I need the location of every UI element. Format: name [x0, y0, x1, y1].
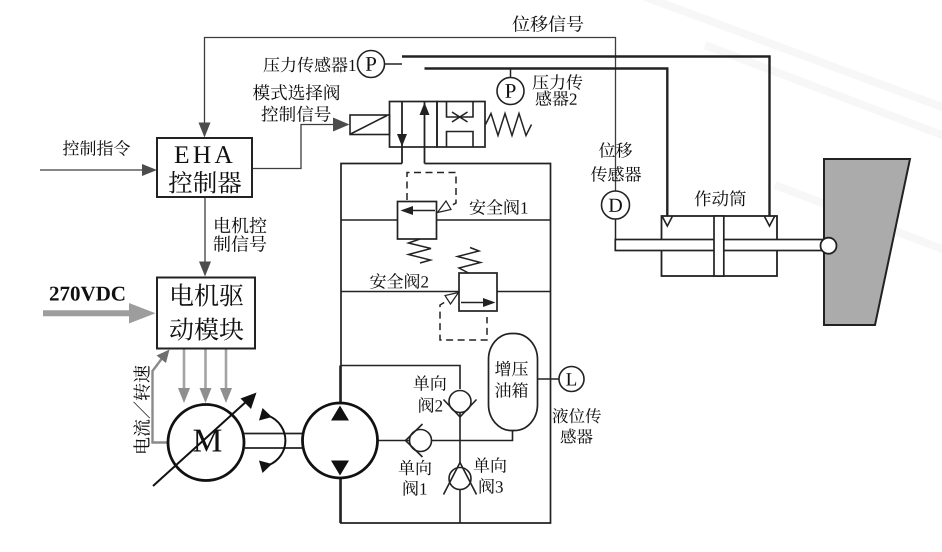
rod pin joint circle [821, 238, 837, 254]
displacement sensor D circle [602, 191, 630, 219]
relief valve 2 spring [458, 248, 481, 274]
relief valve 1 spring [409, 239, 432, 263]
label 压力传感器2 [533, 74, 583, 106]
270VDC supply thick gray arrow [43, 303, 156, 324]
pressure sensor P2 stem [510, 69, 512, 78]
label 增压油箱 [495, 361, 528, 398]
check valve 1 (单向阀1) [406, 424, 432, 457]
open arrowhead at cylinder right port [765, 217, 775, 227]
background sheen [640, 0, 942, 252]
arrowhead into EHA controller left [142, 164, 157, 176]
label 位移信号 [512, 15, 583, 32]
mode valve body right position square [437, 102, 485, 148]
label 单向阀3 [474, 457, 506, 494]
label 模式选择阀控制信号 [253, 84, 340, 122]
relief valve 2 (安全阀2) box [459, 273, 497, 311]
motor drive module box 电机驱动模块 [157, 278, 255, 349]
check valve 3 (单向阀3) [444, 463, 477, 495]
pressure sensor P1 circle [358, 51, 385, 78]
label 动模块 [170, 318, 243, 341]
block internal line lower (through relief valve 2) [341, 291, 551, 293]
label 电机控制信号 [214, 217, 267, 252]
EHA controller box [157, 138, 252, 197]
arrowhead into solenoid [333, 118, 350, 132]
line pump to tank (through check valve 1) [378, 428, 513, 441]
motor circle M [168, 405, 244, 481]
relief valve 2 flow arrow (right) [461, 302, 491, 304]
relief valve 1 flow arrow (left) [405, 210, 435, 212]
label 270VDC [50, 287, 124, 301]
check valve 2 (单向阀2) [444, 391, 477, 418]
label 电流/转速 rotated [133, 366, 150, 453]
pump bottom triangle [331, 461, 349, 476]
pressure sensor P2 circle [497, 78, 524, 105]
relief valve 1 (安全阀1) box [398, 202, 437, 240]
label 控制器 [169, 171, 241, 194]
relief valve 1 pilot dashed line [407, 173, 456, 211]
label EHA [175, 146, 233, 163]
block internal line upper (through relief valve 1) [341, 219, 551, 221]
arrowhead into motor drive module top [199, 262, 211, 277]
wire: displacement signal 位移信号 (D sensor to EHA controller top) [205, 38, 616, 192]
mode valve body left position square [390, 102, 438, 148]
current/speed feedback gray arrow [153, 357, 171, 443]
open arrowhead at cylinder left port [662, 217, 672, 227]
label 位移传感器 [591, 142, 641, 182]
rotation direction curved arrow [269, 416, 285, 465]
pump top triangle [331, 406, 349, 421]
label M letter [194, 430, 222, 452]
hose: pressure line A (x=402 valve port to cylinder right port) [402, 57, 770, 216]
wire: motor control signal EHA to motor drive module [204, 197, 206, 262]
piston [714, 216, 724, 276]
label 电机驱 [172, 283, 243, 306]
label D letter [609, 199, 622, 212]
wire: mode select valve control signal EHA to solenoid [252, 125, 334, 169]
motor drive gray arrows (3) [184, 349, 226, 389]
label 单向阀2 [413, 375, 445, 413]
valve right-position blocked ports symbol [447, 102, 474, 148]
motor shaft double line [244, 434, 303, 449]
motor variable arrow diagonal [153, 400, 248, 486]
label 液位传感器 [553, 408, 601, 444]
manifold block outline [341, 164, 551, 524]
label P1 letter [366, 57, 376, 71]
label 单向阀1 [399, 460, 431, 496]
valve left-position flow line with up arrow [424, 102, 426, 164]
actuator cylinder barrel 作动筒 [662, 216, 778, 276]
branch line block-left to check valve 2 [341, 366, 460, 390]
piston rod [615, 240, 832, 251]
label 安全阀2 [370, 273, 428, 289]
solenoid coil of mode valve [350, 115, 390, 135]
label 控制指令 [63, 140, 130, 156]
arrowhead into EHA controller top [199, 123, 211, 138]
control surface trapezoid [824, 159, 910, 325]
level sensor L circle [559, 367, 584, 392]
label P2 letter [505, 84, 515, 98]
line check valve 2 to check valve 3 [459, 413, 461, 524]
booster tank 增压油箱 capsule [489, 334, 538, 431]
label L letter [566, 373, 576, 385]
valve left-position flow line with down arrow [401, 102, 403, 164]
wire: control command 控制指令 into EHA controller [40, 169, 143, 171]
label 安全阀1 [470, 199, 528, 215]
valve return spring [486, 114, 532, 136]
displacement sensor stem down to rod [615, 219, 617, 240]
relief valve 2 pilot dashed line [440, 297, 487, 341]
label 作动筒 [695, 190, 746, 206]
hose: pressure line B (valve port 2 to cylinder left port) [425, 69, 668, 216]
pump suction/pressure line vertical [339, 366, 341, 524]
pump circle [303, 403, 378, 478]
pressure sensor P1 stem [385, 63, 403, 65]
label 压力传感器1 [264, 57, 356, 73]
level sensor stem [538, 378, 560, 380]
